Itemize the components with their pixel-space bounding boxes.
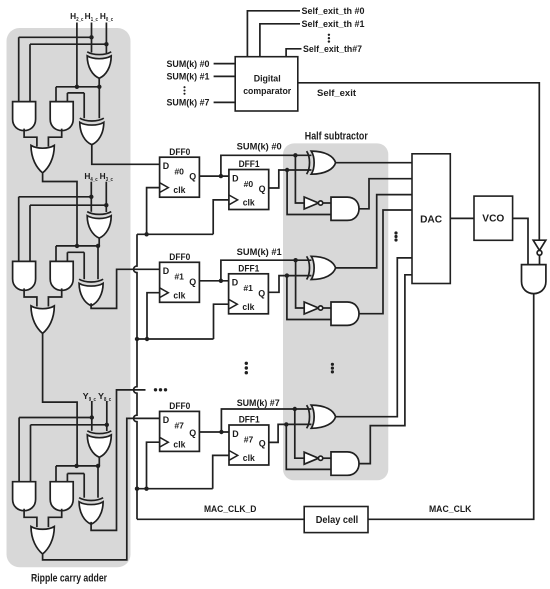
wire input H0_c — [105, 23, 107, 54]
svg-text:SUM(k) #1: SUM(k) #1 — [167, 72, 210, 82]
svg-text:D: D — [163, 161, 170, 171]
junction XOR2a out — [96, 244, 100, 248]
junction DFF1#1 Q branch — [285, 273, 289, 277]
junction DFF1#0 Q branch — [285, 168, 289, 172]
flip-flop DFF1 #0 — [229, 170, 269, 210]
xor gate half-subtractor #1 — [307, 256, 336, 279]
svg-text:D: D — [232, 278, 239, 288]
xor gate stage2 XOR2a — [87, 212, 111, 239]
svg-text:clk: clk — [173, 185, 185, 195]
wire SUM(k) #7 into comparator — [214, 101, 236, 103]
junction SUM#0 branch to NOT — [293, 153, 297, 157]
svg-text:clk: clk — [242, 302, 254, 312]
wire stage2 AND1 input a — [18, 197, 20, 262]
svg-text:Ripple carry adder: Ripple carry adder — [31, 573, 108, 585]
wire stage3 XOR3b input a — [83, 474, 85, 498]
wire stage2 junction row — [56, 245, 98, 247]
svg-text:MAC_CLK_D: MAC_CLK_D — [204, 504, 257, 514]
wire SUM(k)#0 riser — [221, 155, 312, 176]
wire carry2 to stage3 — [43, 333, 78, 466]
svg-text:clk: clk — [173, 290, 185, 300]
wire #0 not input riser — [295, 155, 304, 203]
wire #7 and input riser — [286, 424, 331, 469]
wire stage1 junction row — [56, 86, 99, 88]
wire stage3 AND2 out jog — [48, 509, 61, 527]
svg-text:Self_exit_th #0: Self_exit_th #0 — [302, 6, 365, 16]
wire stage3 row2 — [67, 473, 84, 475]
svg-text:Digital: Digital — [254, 74, 281, 84]
svg-text:DFF0: DFF0 — [169, 147, 190, 158]
wire sum3 to ellipsis — [91, 390, 145, 531]
xor gate stage1 XOR2 (sum) — [80, 118, 104, 145]
junction SUM(k)#7 tap — [219, 430, 223, 434]
svg-text:VCO: VCO — [482, 214, 504, 225]
wire #7 xor out to DAC — [335, 258, 412, 417]
vertical ellipsis Self_exit_th — [328, 34, 330, 43]
junction H0 tap — [104, 42, 108, 46]
wire #0 xor out to DAC — [335, 162, 412, 164]
wire stage3 XOR3b input b — [97, 466, 99, 498]
svg-text:H2_c: H2_c — [70, 12, 84, 23]
junction SUM(k)#1 tap — [219, 279, 223, 283]
junction H3 tap — [104, 203, 108, 207]
and gate stage2 AND2 — [50, 261, 73, 290]
wire DFF1#0 clk riser — [213, 200, 229, 234]
svg-text:SUM(k) #0: SUM(k) #0 — [237, 141, 282, 151]
junction XOR1 out — [97, 85, 101, 89]
wire SUM(k) #1 into comparator — [214, 75, 236, 77]
and gate stage3 AND2 — [50, 482, 73, 511]
or gate stage3 OR3 (carry) — [31, 527, 54, 555]
svg-text:Q: Q — [259, 438, 266, 448]
and gate stage3 AND1 — [13, 482, 36, 511]
svg-text:#0: #0 — [244, 179, 254, 189]
wire XOR1 output — [98, 78, 100, 87]
svg-text:MAC_CLK: MAC_CLK — [429, 504, 472, 514]
wire input H4_c — [90, 182, 92, 212]
wire stage3 Y8 tap — [31, 424, 107, 426]
xor gate half-subtractor #7 — [307, 405, 336, 428]
junction DFF1#7 Q branch — [284, 422, 288, 426]
svg-text:#7: #7 — [244, 434, 254, 444]
svg-text:D: D — [232, 429, 239, 439]
wire #7 not input riser — [295, 409, 304, 458]
junction bus rung1 — [135, 337, 139, 341]
wire #0 not to and — [323, 202, 331, 204]
wire DFF1#1 Q to half subtractor — [268, 276, 311, 293]
and gate half-subtractor #0 — [331, 197, 359, 220]
wire stage2 H4 tap — [19, 196, 92, 198]
vertical ellipsis half subtractors — [331, 363, 334, 374]
junction carry1 end — [75, 244, 79, 248]
wire stage3 AND1 input b — [30, 425, 32, 482]
xor gate stage1 XOR1 (H1^H0) — [87, 52, 111, 79]
wire stage1 H0 tap to AND1 — [30, 43, 106, 45]
wire Self_exit to inverter — [298, 83, 540, 240]
wire Self_exit_th #0 — [247, 11, 300, 57]
wire AND1 input b — [29, 44, 31, 101]
wire carry3 to DFF0#7 D — [43, 418, 160, 560]
wire input H1_c — [91, 23, 93, 53]
and gate half-subtractor #1 — [331, 302, 359, 325]
wire XOR2a output — [98, 238, 100, 246]
wire #0 and input riser — [287, 170, 331, 215]
svg-text:SUM(k) #7: SUM(k) #7 — [167, 98, 210, 108]
svg-text:Delay cell: Delay cell — [316, 515, 359, 526]
wire stage2 XOR2b input b — [97, 246, 99, 279]
junction rung0 riser — [144, 232, 148, 236]
svg-text:clk: clk — [243, 453, 255, 463]
wire DFF0#7 Q to DFF1#7 D — [199, 431, 229, 433]
svg-text:#1: #1 — [174, 272, 184, 282]
junction SUM#7 branch to NOT — [293, 407, 297, 411]
svg-text:D: D — [163, 415, 170, 425]
wire DAC to VCO — [450, 217, 474, 219]
svg-text:DFF0: DFF0 — [169, 252, 190, 263]
and gate stage1 AND1 — [13, 102, 36, 131]
wire input Y9_c — [91, 401, 93, 431]
svg-text:Self_exit: Self_exit — [317, 88, 356, 98]
svg-text:H1_c: H1_c — [85, 12, 99, 23]
xor gate stage3 XOR3b (sum) — [79, 498, 103, 525]
wire VCO out to AND — [513, 218, 528, 264]
wire stage3 junction row — [56, 465, 98, 467]
wire XOR2 input a — [83, 93, 85, 118]
not gate half-subtractor #7 — [304, 452, 323, 464]
wire DFF0#0 Q to DFF1#0 D — [199, 175, 229, 177]
flip-flop DFF1 #1 — [229, 274, 269, 314]
or gate stage1 OR1 (carry) — [31, 145, 54, 173]
svg-text:Half subtractor: Half subtractor — [305, 131, 369, 143]
flip-flop DFF1 #7 — [229, 425, 269, 465]
junction SUM(k)#0 tap — [219, 174, 223, 178]
svg-text:DAC: DAC — [420, 214, 442, 225]
svg-text:clk: clk — [243, 198, 255, 208]
wire stage3 AND1 out jog — [24, 509, 37, 527]
wire #1 not input riser — [296, 260, 305, 308]
svg-text:#7: #7 — [174, 421, 184, 431]
wire AND2 out jog — [48, 129, 61, 147]
svg-text:Self_exit_th #1: Self_exit_th #1 — [302, 19, 365, 29]
vertical ellipsis comparator inputs — [183, 86, 185, 95]
wire stage2 AND1 out jog — [24, 288, 37, 306]
wire #1 not to and — [323, 307, 331, 309]
wire input Y8_c — [106, 401, 108, 431]
wire stage1 row2 — [67, 92, 84, 94]
wire clk rung group7 — [137, 488, 213, 490]
junction XOR3a out — [96, 464, 100, 468]
wire #1 xor out to DAC — [335, 195, 412, 268]
wire SUM(k) #0 into comparator — [214, 63, 236, 65]
wire DFF0#1 clk stub — [147, 293, 160, 339]
VCO box — [474, 196, 513, 240]
wire DFF1#0 Q to half subtractor — [269, 170, 312, 188]
svg-text:SUM(k) #1: SUM(k) #1 — [237, 247, 282, 257]
wire sum1 to DFF0#0 D — [92, 144, 160, 164]
junction H4 tap — [89, 195, 93, 199]
wire AND1 out jog — [24, 129, 37, 147]
wire DFF1#7 Q to half subtractor — [269, 424, 312, 442]
horizontal ellipsis sum bits — [154, 388, 167, 391]
wire stage2 AND2 input b — [66, 252, 68, 261]
svg-text:D: D — [232, 173, 239, 183]
wire stage2 XOR2b input a — [83, 252, 85, 279]
junction rung1 riser — [145, 337, 149, 341]
or gate stage2 OR2 (carry) — [31, 306, 54, 334]
wire #7 and out to DAC — [359, 275, 412, 464]
wire XOR2 input b — [98, 87, 100, 118]
wire stage3 AND2 input b — [66, 474, 68, 482]
wire clk rung group0 — [137, 233, 213, 235]
wire clk rung group1 — [137, 338, 214, 340]
wire stage1 H1 tap to AND1 — [19, 36, 92, 38]
wire DFF0#7 clk stub — [147, 442, 160, 489]
wire sum2 to DFF0#1 D — [91, 269, 160, 308]
svg-text:D: D — [163, 266, 170, 276]
and gate stage1 AND2 — [50, 102, 73, 131]
wire DFF0#1 Q to DFF1#1 D — [199, 280, 228, 282]
svg-text:H0_c: H0_c — [100, 12, 114, 23]
wire stage2 AND2 input a — [55, 246, 57, 262]
svg-text:DFF1: DFF1 — [239, 415, 261, 426]
junction H1 tap — [89, 35, 93, 39]
xor gate stage3 XOR3a — [87, 431, 111, 458]
svg-text:Q: Q — [189, 277, 196, 287]
wire carry1 to stage2 — [43, 173, 77, 246]
inverter on Self_exit — [533, 240, 546, 255]
wire AND2 input b — [66, 93, 68, 102]
and gate stage2 AND1 — [13, 261, 36, 290]
flip-flop DFF0 #0 — [160, 157, 200, 197]
wire DFF0#0 clk stub — [147, 188, 160, 235]
wire DFF1#1 clk riser — [214, 304, 229, 339]
and gate half-subtractor #7 — [331, 452, 359, 475]
svg-text:clk: clk — [173, 439, 185, 449]
wire stage2 H3 tap — [30, 204, 106, 206]
svg-text:DFF1: DFF1 — [238, 263, 260, 274]
svg-text:#0: #0 — [174, 167, 184, 177]
svg-text:Self_exit_th#7: Self_exit_th#7 — [303, 44, 362, 54]
and gate clock gating — [522, 265, 546, 294]
ripple carry adder shaded region — [7, 28, 131, 567]
wire AND1 input a — [18, 37, 20, 101]
xor gate stage2 XOR2b (sum) — [79, 279, 103, 306]
wire Self_exit_th #1 — [260, 24, 300, 57]
DAC box — [412, 154, 450, 284]
not gate half-subtractor #1 — [304, 302, 323, 314]
flip-flop DFF0 #7 — [160, 411, 200, 451]
svg-text:DFF1: DFF1 — [239, 159, 261, 170]
wire #0 and out to DAC — [359, 179, 412, 209]
svg-text:Q: Q — [258, 288, 265, 298]
junction rung7 riser — [144, 487, 148, 491]
wire MAC_CLK_D to bus — [137, 518, 304, 520]
svg-text:Q: Q — [189, 428, 196, 438]
wire stage3 AND2 input a — [55, 466, 57, 482]
wire input H2_c — [76, 23, 78, 87]
wire input H3_c — [105, 182, 107, 212]
wire #7 not to and — [323, 457, 331, 459]
svg-text:Q: Q — [189, 172, 196, 182]
wire MAC_CLK_D bus — [134, 234, 137, 519]
svg-text:comparator: comparator — [243, 86, 291, 96]
digital comparator box — [235, 57, 298, 111]
wire XOR3a output — [98, 457, 100, 466]
junction H2 end — [75, 85, 79, 89]
wire Self_exit_th#7 — [286, 49, 301, 57]
half subtractor shaded region — [283, 143, 388, 480]
wire stage2 row2 — [67, 251, 84, 253]
vertical ellipsis DFF groups — [245, 362, 248, 375]
junction carry2 end — [74, 464, 78, 468]
wire DFF1#7 clk riser — [213, 455, 229, 488]
wire #1 and out to DAC — [359, 210, 412, 314]
svg-text:SUM(k) #7: SUM(k) #7 — [237, 398, 280, 408]
wire MAC_CLK from AND — [368, 294, 534, 520]
svg-text:DFF0: DFF0 — [169, 401, 190, 412]
junction bus rung7 — [135, 487, 139, 491]
not gate half-subtractor #0 — [304, 197, 323, 209]
svg-text:SUM(k) #0: SUM(k) #0 — [167, 59, 210, 69]
xor gate half-subtractor #0 — [307, 151, 336, 174]
wire stage2 AND2 out jog — [48, 288, 61, 306]
wire stage3 AND1 input a — [18, 418, 20, 482]
junction Y9 tap — [90, 415, 94, 419]
delay cell box — [304, 507, 368, 533]
junction SUM#1 branch to NOT — [293, 258, 297, 262]
junction Y8 tap — [105, 423, 109, 427]
vertical ellipsis DAC inputs — [394, 231, 397, 241]
wire inverter to AND — [539, 255, 541, 264]
wire SUM(k)#1 riser — [221, 260, 312, 281]
wire AND2 input a — [55, 87, 57, 102]
wire SUM(k)#7 riser — [221, 409, 311, 432]
svg-text:Q: Q — [259, 184, 266, 194]
svg-text:#1: #1 — [243, 283, 253, 293]
flip-flop DFF0 #1 — [160, 262, 200, 302]
wire stage3 Y9 tap — [19, 417, 92, 419]
wire stage2 AND1 input b — [29, 205, 31, 261]
wire #1 and input riser — [287, 276, 331, 320]
